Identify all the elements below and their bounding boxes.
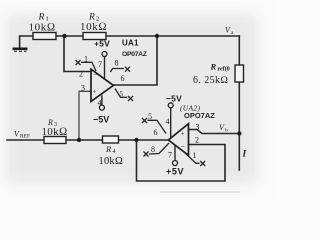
svg-text:10kΩ: 10kΩ — [80, 21, 107, 33]
svg-text:8: 8 — [151, 145, 155, 154]
svg-text:+: + — [93, 88, 97, 96]
svg-text:2: 2 — [79, 70, 83, 79]
U2 pin 7 +5V supply — [166, 145, 184, 177]
svg-text:3: 3 — [81, 84, 85, 93]
svg-text:−5V: −5V — [93, 115, 109, 125]
resistor R4 — [99, 136, 124, 167]
op-amp U2 — [168, 104, 215, 156]
svg-text:+5V: +5V — [166, 167, 184, 177]
svg-text:5: 5 — [120, 90, 124, 98]
svg-text:I: I — [242, 150, 247, 160]
U1 pin 8 no-connect — [111, 67, 131, 72]
node junction pin3 bottom — [77, 138, 81, 142]
svg-text:7: 7 — [168, 151, 172, 160]
svg-text:UA1: UA1 — [122, 39, 139, 48]
resistor R1 — [29, 13, 57, 40]
svg-text:+5V: +5V — [94, 39, 110, 49]
wire U2 pin3 to Vb node — [189, 130, 240, 134]
wire U1 pin3 to bottom rail — [79, 91, 91, 140]
wire top rail — [20, 36, 240, 49]
svg-text:−5V: −5V — [166, 94, 182, 104]
node junction R4 feedback — [134, 138, 138, 142]
U1 pin 1 no-connect — [76, 60, 97, 71]
scan artifact line — [160, 191, 240, 193]
U2 pin 5 no-connect — [142, 118, 166, 134]
svg-text:1: 1 — [193, 151, 197, 160]
svg-text:8: 8 — [115, 59, 119, 68]
svg-text:a: a — [231, 30, 234, 36]
svg-text:−: − — [181, 143, 186, 152]
svg-text:2: 2 — [195, 136, 199, 145]
U2 pin 8 no-connect — [144, 143, 170, 157]
svg-text:10kΩ: 10kΩ — [99, 156, 124, 167]
svg-text:4: 4 — [166, 117, 170, 126]
svg-text:5: 5 — [148, 112, 152, 121]
U2 pin 4 -5V supply — [166, 94, 183, 139]
svg-text:REF: REF — [20, 134, 30, 140]
U1 pin 5 no-connect — [115, 89, 133, 102]
svg-text:R: R — [105, 144, 112, 154]
wire U1 output to top rail — [113, 36, 157, 85]
svg-text:+: + — [181, 130, 185, 138]
svg-text:6: 6 — [121, 74, 125, 83]
svg-text:4: 4 — [113, 149, 116, 155]
svg-text:R: R — [210, 62, 217, 72]
ground — [13, 49, 28, 52]
svg-text:OP07AZ: OP07AZ — [122, 51, 147, 58]
wire bottom rail VREF to U2 output — [7, 139, 168, 141]
svg-text:3: 3 — [196, 123, 200, 132]
op-amp U1 — [91, 39, 147, 102]
svg-text:10kΩ: 10kΩ — [29, 22, 56, 34]
svg-text:b: b — [225, 128, 228, 134]
resistor Rref 6.25k — [193, 62, 244, 87]
svg-text:−: − — [93, 71, 98, 80]
svg-text:1: 1 — [84, 55, 88, 64]
U2 pin 1 no-connect — [183, 151, 205, 166]
U1 pin 7 +5V supply — [94, 39, 110, 80]
wire U2 feedback loop pin2 — [137, 140, 226, 181]
svg-text:10kΩ: 10kΩ — [42, 126, 68, 138]
svg-text:6. 25kΩ: 6. 25kΩ — [193, 75, 228, 86]
resistor R3 — [42, 118, 68, 144]
resistor R2 — [80, 13, 107, 40]
node junction output rail — [155, 34, 159, 38]
wire right rail (Va to I) — [238, 36, 240, 170]
svg-text:6: 6 — [154, 128, 158, 137]
svg-text:4: 4 — [98, 99, 102, 108]
svg-text:ref(0: ref(0 — [218, 66, 230, 73]
wire R1R2 junction to U1 pin2 — [64, 36, 91, 72]
svg-text:(UA2): (UA2) — [180, 104, 200, 113]
node junction Vb — [237, 131, 241, 135]
node junction R1R2 — [62, 34, 66, 38]
svg-text:7: 7 — [98, 60, 102, 69]
U1 pin 4 -5V supply — [93, 95, 109, 124]
